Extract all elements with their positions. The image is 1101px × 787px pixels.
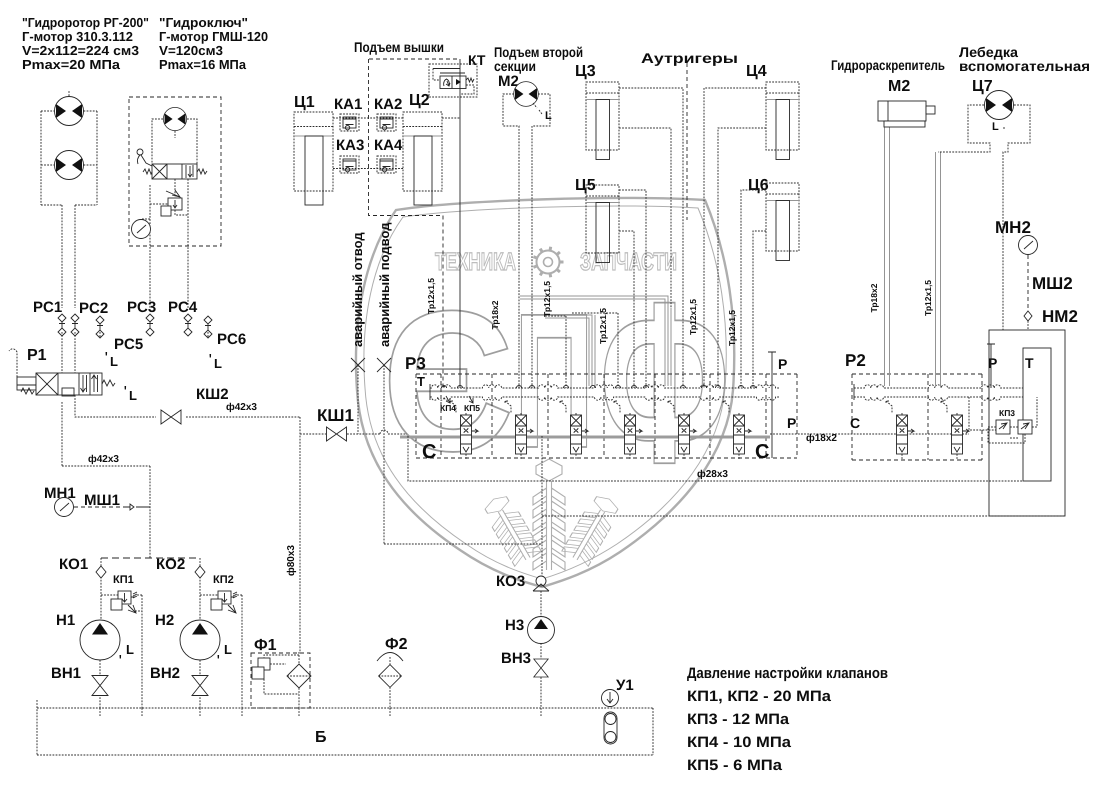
svg-text:Т: Т [417,374,425,389]
quick coupling PC4 [184,314,192,336]
spool section at 684 [668,401,696,460]
svg-text:Pmax=16 МПа: Pmax=16 МПа [159,57,247,72]
cylinder M2 (hydrorelease) [878,101,926,121]
wire: P1 risers to couplings [62,332,75,373]
P3 P-port right [768,352,776,458]
svg-text:Тр18х2: Тр18х2 [490,300,500,329]
wire: f28x3 line [408,436,1023,481]
pilot lever (hydrokey valve) [137,149,143,155]
wire: C4 ports [704,88,766,388]
spool P2 section 1 [886,401,914,460]
svg-text:ВН1: ВН1 [51,665,81,682]
svg-text:М2: М2 [888,78,910,95]
svg-text:Тр12х1,5: Тр12х1,5 [598,308,608,344]
quick coupling PC6 [204,316,212,338]
svg-text:Ц5: Ц5 [575,177,596,194]
gauge (hydrokey) [132,220,151,239]
svg-text:V=2х112=224 см3: V=2х112=224 см3 [22,43,139,58]
wire: hand pump feed line [384,436,1065,576]
spool section at 739 [723,401,751,460]
svg-text:КП1, КП2 - 20 МПа: КП1, КП2 - 20 МПа [687,688,832,705]
boundary: NM2 block outer [989,330,1065,516]
svg-text:Тр12х1,5: Тр12х1,5 [426,278,436,314]
svg-text:Ф2: Ф2 [385,636,408,653]
watermark: wheat ears [533,459,565,570]
quick coupling PC3 [146,314,154,336]
motor M (hydrokey) [163,107,186,130]
spool section at 521 [505,401,533,460]
svg-text:Н3: Н3 [505,617,524,634]
svg-text:С: С [422,441,436,463]
wire: hydrokey internals [141,179,188,308]
svg-text:МН2: МН2 [995,218,1031,237]
watermark: ELF logo shield [356,198,734,587]
svg-text:ф42х3: ф42х3 [226,402,257,413]
svg-text:аварийный подвод: аварийный подвод [377,222,392,347]
svg-text:L: L [992,121,999,133]
quick coupling PC2 [71,314,79,336]
svg-text:Тр12х1,5: Тр12х1,5 [542,281,552,317]
svg-text:Т: Т [1025,355,1034,371]
wire: f80x3 return drop [299,417,301,652]
svg-text:L: L [126,642,134,657]
svg-text:ꞌ: ꞌ [124,385,127,397]
svg-text:РC1: РC1 [33,299,62,316]
svg-text:"Гидроключ": "Гидроключ" [159,15,248,30]
svg-text:Тр12х1,5: Тр12х1,5 [688,299,698,335]
svg-text:ф18х2: ф18х2 [806,433,837,444]
motor C7 (aux winch) [985,91,1014,120]
svg-text:Ц7: Ц7 [972,78,993,95]
svg-text:Тр12х1,5: Тр12х1,5 [727,310,737,346]
svg-text:ф42х3: ф42х3 [88,454,119,465]
relief arrows KP4 KP5 [446,396,473,403]
svg-text:Тр12х1,5: Тр12х1,5 [923,280,933,316]
wire: line to KSh1 [300,430,407,434]
svg-text:Н1: Н1 [56,612,75,629]
svg-text:МШ2: МШ2 [1032,274,1073,293]
tank B [37,700,653,755]
svg-text:КП3 - 12 МПа: КП3 - 12 МПа [687,711,790,728]
boundary: hydrokey dashed box [129,97,221,246]
svg-text:С: С [850,415,860,431]
pipe: M2 gray pipe [885,127,890,386]
wire: C7 loop [938,105,1030,330]
wire: P1 down / f42x3 line to KSh2 [62,395,300,558]
emergency outlet X + line [351,358,365,372]
svg-text:Подъем вышки: Подъем вышки [354,39,444,55]
svg-text:КП3: КП3 [999,408,1015,418]
motor M1a (hydrorotor top) [55,97,84,126]
valve P1 directional [17,377,36,390]
svg-text:Н2: Н2 [155,612,174,629]
svg-text:КП2: КП2 [213,574,234,586]
boundary: lift tower dashed box [369,59,461,216]
wire: hydrokey motor loop [152,119,197,164]
wire: PC5 PC6 stubs [100,332,208,338]
svg-text:Р: Р [988,355,997,371]
svg-text:Ц4: Ц4 [746,63,767,80]
svg-text:L: L [110,354,118,369]
svg-text:Pmax=20 МПа: Pmax=20 МПа [22,57,121,72]
wire: M2 loop down to P3 [503,94,550,388]
svg-text:Ц3: Ц3 [575,63,596,80]
wire: hydrorotor loop [41,90,97,308]
pipe: gray tube to section [545,315,595,386]
spool section at 576 [560,401,588,460]
svg-text:Г-мотор 310.3.112: Г-мотор 310.3.112 [22,29,133,44]
svg-text:КП5 - 6 МПа: КП5 - 6 МПа [687,757,783,774]
svg-text:ВН3: ВН3 [501,650,531,667]
P3 C rail (gray) [400,436,770,439]
svg-text:КА2: КА2 [374,96,402,113]
watermark: gear icon [537,251,560,274]
svg-text:РC3: РC3 [127,299,156,316]
boundary: NM2 block inner T-rail [1023,348,1051,481]
svg-text:ꞌ: ꞌ [217,654,220,666]
svg-text:ꞌ: ꞌ [105,351,108,363]
relief valve KP (hydrokey) [168,198,182,210]
svg-text:КА3: КА3 [336,137,364,154]
svg-text:Б: Б [315,729,327,746]
motor M2 (second section) [514,82,539,107]
svg-text:Давление настройки клапанов: Давление настройки клапанов [687,665,888,682]
wire: C5 ports [619,190,646,388]
wire: tank drop legs [100,708,541,716]
svg-text:V=120см3: V=120см3 [159,43,223,58]
svg-text:КШ2: КШ2 [196,386,229,403]
svg-text:КА1: КА1 [334,96,362,113]
svg-text:НМ2: НМ2 [1042,307,1078,326]
svg-text:Р3: Р3 [405,354,426,373]
svg-text:Ф1: Ф1 [254,637,277,654]
svg-text:КП4 - 10 МПа: КП4 - 10 МПа [687,734,792,751]
svg-text:L: L [224,642,232,657]
svg-text:L: L [214,356,222,371]
svg-text:вспомогательная: вспомогательная [959,58,1090,74]
svg-text:L: L [129,388,137,403]
svg-text:ф80х3: ф80х3 [286,545,297,576]
quick coupling PC1 [58,314,66,336]
svg-text:РC2: РC2 [79,300,108,317]
svg-text:П: П [514,273,594,488]
wire: pump header [101,557,200,559]
emergency inlet X + line [377,358,391,372]
wire: C6 ports [741,190,766,388]
boundary: P2 dashed box [852,374,982,460]
svg-text:ф28х3: ф28х3 [697,469,728,480]
svg-text:КО2: КО2 [156,556,185,573]
svg-text:аварийный отвод: аварийный отвод [350,232,365,347]
svg-text:Тр18х2: Тр18х2 [869,283,879,312]
svg-text:КП5: КП5 [464,403,480,413]
svg-text:секции: секции [494,58,536,74]
svg-text:Р: Р [778,356,787,372]
svg-text:КО3: КО3 [496,573,525,590]
wire: C line to P2 (f18x2) [770,433,969,435]
boundary: outrigger dashed divider [686,63,688,220]
valve: hydrokey directional valve [152,164,197,179]
spool section at 466 [450,401,478,460]
spool P2 section 2 [941,401,969,460]
svg-text:"Гидроротор РГ-200": "Гидроротор РГ-200" [22,15,149,30]
svg-text:Р1: Р1 [27,347,47,364]
svg-text:РC6: РC6 [217,331,246,348]
svg-text:КА4: КА4 [374,137,403,154]
svg-text:Гидрораскрепитель: Гидрораскрепитель [831,57,945,73]
wire: C1-C2 lower line [333,168,403,170]
pipe: C7 gray pipe [936,152,941,386]
svg-text:ꞌ: ꞌ [119,654,122,666]
wire: C3 ports [619,88,683,388]
svg-text:КО1: КО1 [59,556,88,573]
wire: C1-C2 upper line [333,117,403,119]
pilot hook P1 [9,349,17,377]
svg-text:КП1: КП1 [113,574,134,586]
svg-text:Р2: Р2 [845,351,866,370]
svg-text:РC5: РC5 [114,336,143,353]
svg-text:Ц1: Ц1 [294,94,315,111]
wire: P3 rails [430,385,780,388]
svg-text:У1: У1 [616,677,634,694]
quick coupling PC5 [96,316,104,338]
svg-text:Аутригеры: Аутригеры [641,50,738,66]
wire: misc section 3 feeders [545,313,618,388]
wire: C2 to KT line [442,117,460,119]
svg-text:МШ1: МШ1 [84,492,120,509]
svg-text:ВН2: ВН2 [150,665,180,682]
svg-text:КШ1: КШ1 [317,406,354,425]
svg-text:РC4: РC4 [168,299,198,316]
motor M1b (hydrorotor bottom) [55,151,84,180]
svg-text:ꞌ: ꞌ [209,353,212,365]
svg-text:КП4: КП4 [440,403,456,413]
svg-text:Р: Р [787,415,796,431]
svg-text:Г-мотор ГМШ-120: Г-мотор ГМШ-120 [159,29,268,44]
wire: KT feed + section pipes [459,59,461,388]
boundary: P3 dashed box [416,374,797,458]
svg-text:Ц2: Ц2 [409,92,430,109]
svg-text:L: L [545,110,552,122]
spool section at 630 [614,401,642,460]
svg-text:С: С [755,441,769,463]
